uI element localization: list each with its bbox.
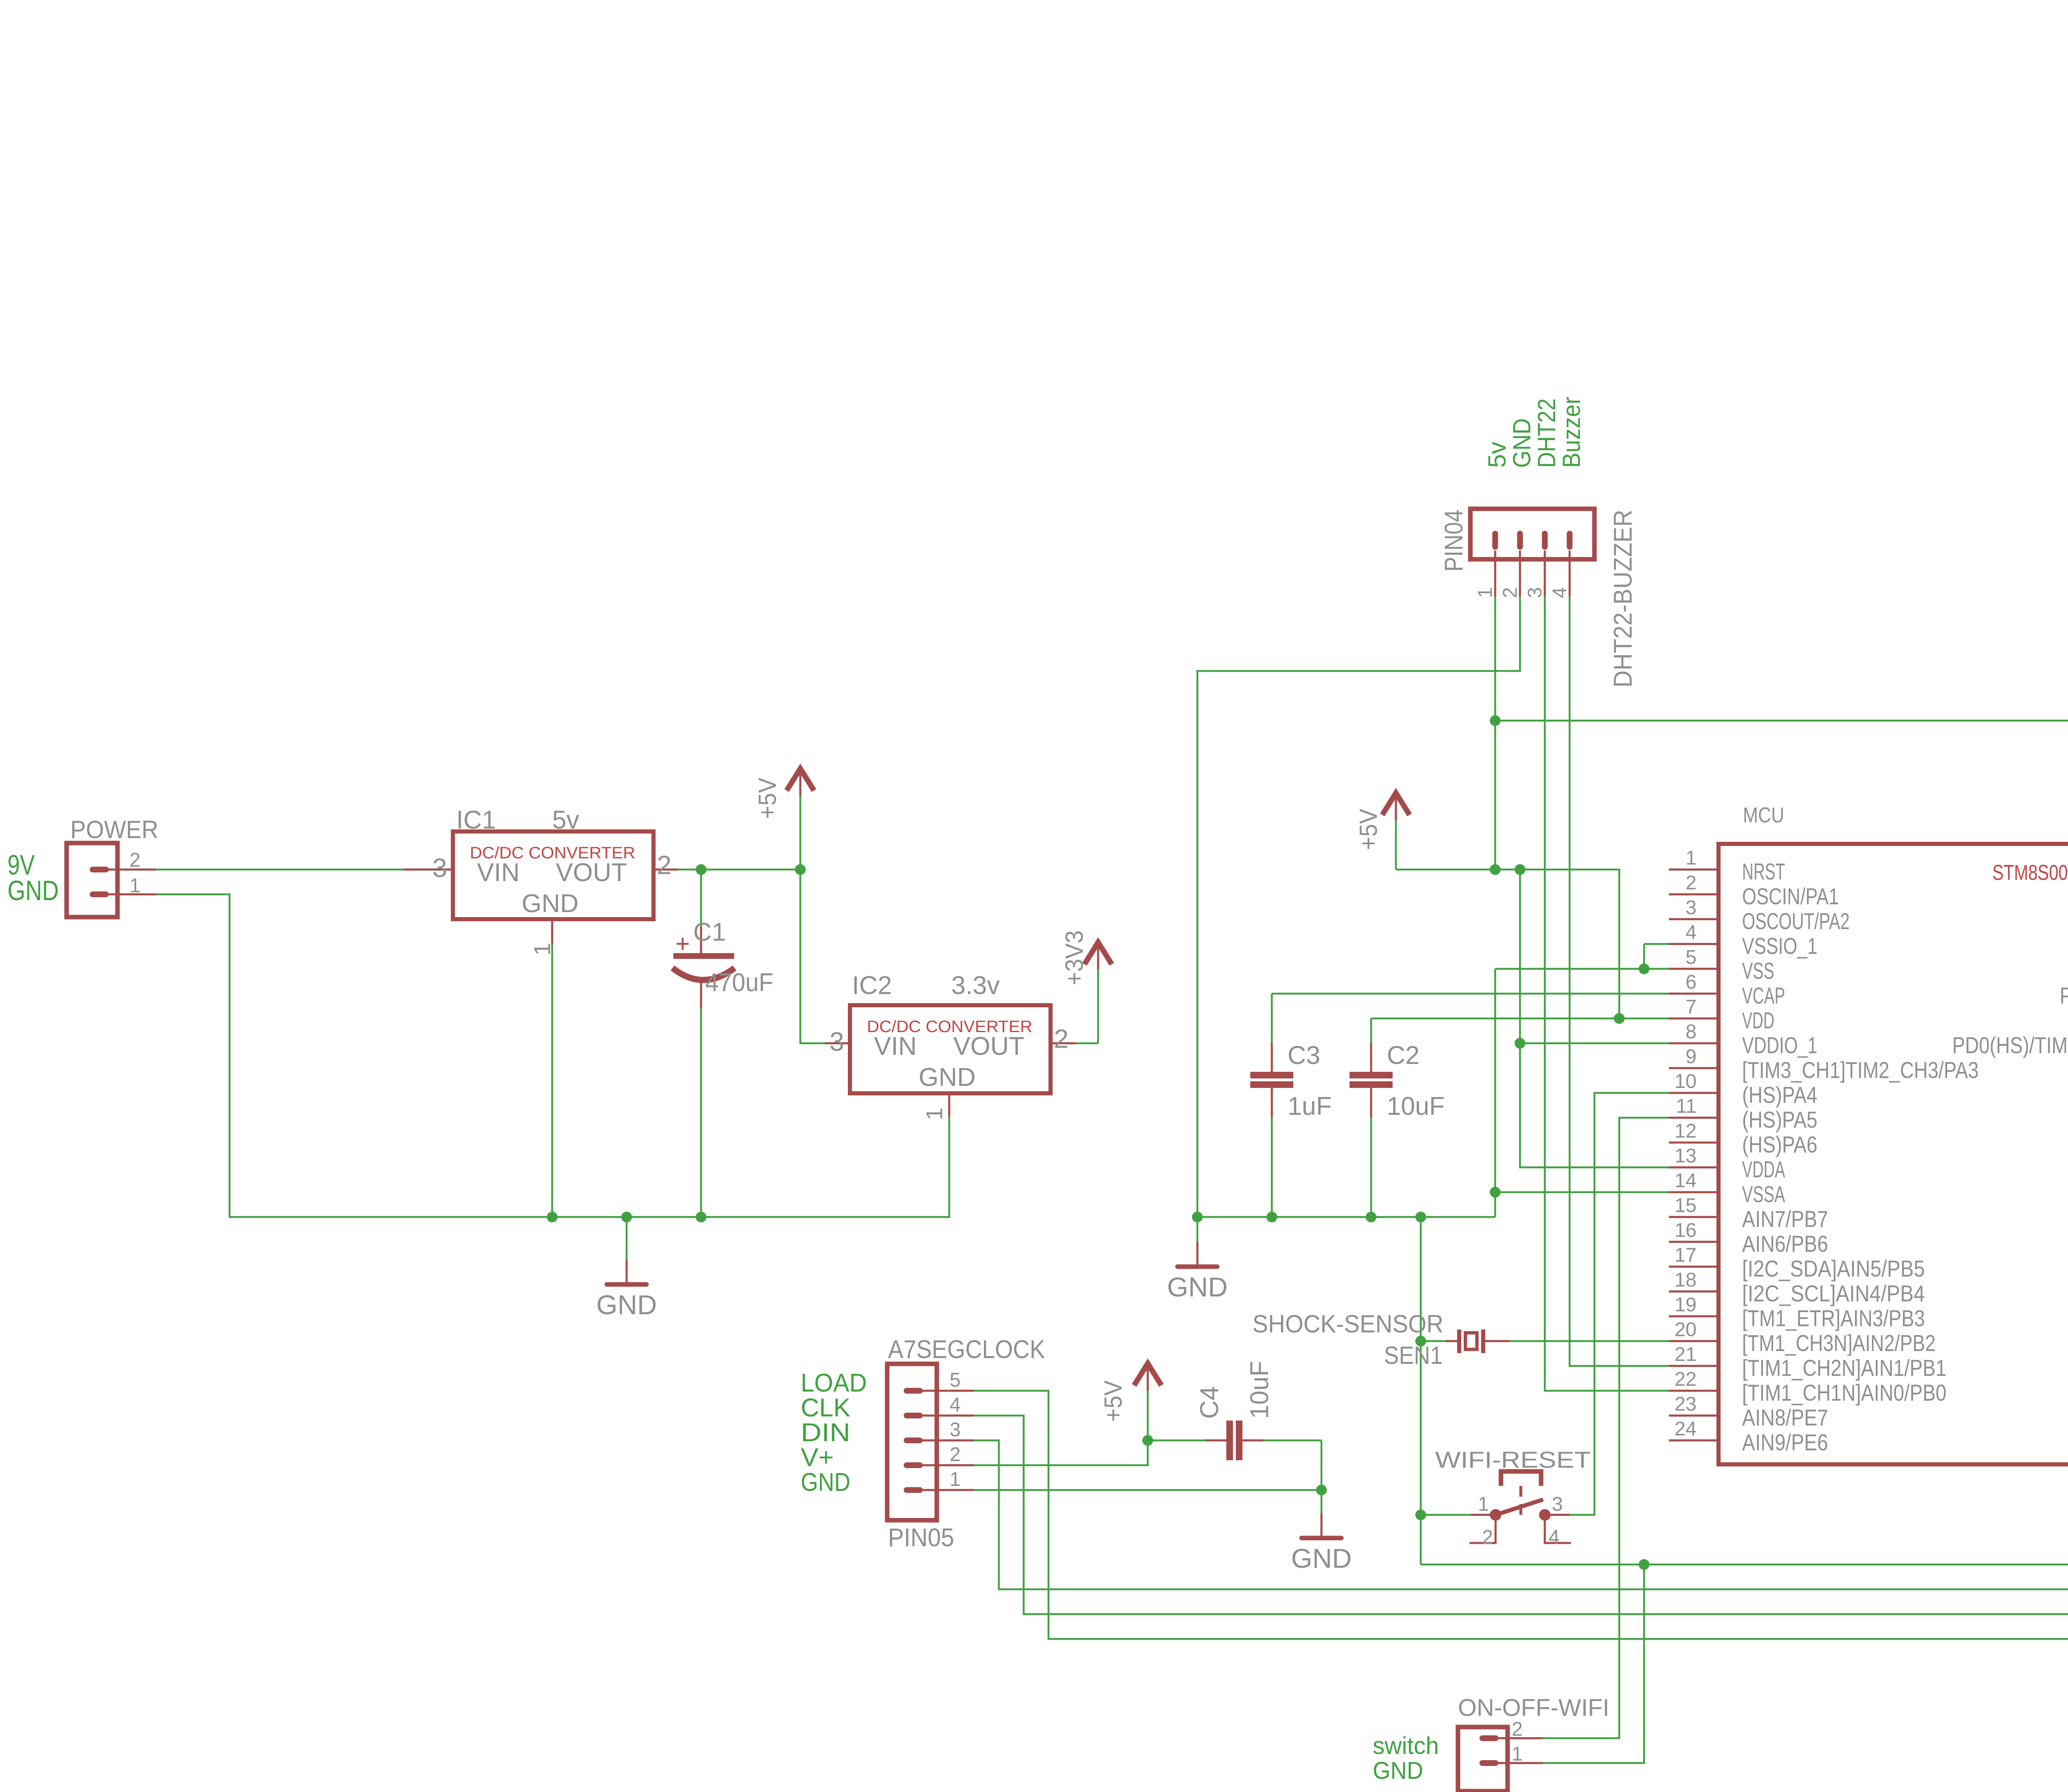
svg-text:1: 1 [1474, 587, 1496, 598]
junction IC1 GND / rail [547, 1212, 558, 1222]
pin 2 WIFI-RESET hook [1470, 1515, 1496, 1543]
svg-text:3: 3 [1685, 897, 1697, 919]
svg-text:4: 4 [1685, 922, 1697, 944]
wire PIN04 pin4 Buzzer to MCU pin21 [1570, 597, 1669, 1366]
junction rail / GND symbol [621, 1212, 632, 1222]
junction rail / SEN1 branch [1415, 1212, 1426, 1222]
wire VSS row [1495, 968, 1669, 970]
wire POWER pin1 to ground rail [156, 894, 949, 1217]
wire POWER pin2 to IC1 VIN [156, 869, 403, 871]
svg-text:[TIM1_CH1N]AIN0/PB0: [TIM1_CH1N]AIN0/PB0 [1742, 1380, 1946, 1406]
svg-text:GND: GND [596, 1289, 657, 1320]
wire MCU pin11 PA5 to ON-OFF-WIFI pin2 [1543, 1118, 1669, 1738]
junction C4/PIN05 GND [1316, 1485, 1327, 1495]
wire ON-OFF pin1 to GND line [1543, 1564, 1644, 1763]
svg-text:1: 1 [1685, 847, 1697, 869]
power +5V arrow (MCU rail) [1382, 793, 1410, 815]
svg-text:470uF: 470uF [705, 968, 773, 997]
ground symbol GND (left rail) [626, 1217, 628, 1260]
svg-text:22: 22 [1675, 1368, 1697, 1390]
pin 4 PIN05 [922, 1415, 974, 1417]
pin 7 MCU VDD [1669, 1018, 1719, 1020]
pin 1 ON-OFF-WIFI [1498, 1762, 1543, 1764]
junction +5V / C4 [1142, 1435, 1153, 1446]
connector POWER [67, 843, 117, 917]
svg-text:VSSA: VSSA [1742, 1181, 1785, 1207]
svg-text:[I2C_SCL]AIN4/PB4: [I2C_SCL]AIN4/PB4 [1742, 1280, 1925, 1306]
pin 5 MCU VSS [1669, 968, 1719, 970]
svg-text:12: 12 [1675, 1120, 1697, 1142]
svg-text:PIN05: PIN05 [888, 1524, 954, 1552]
pin 15 MCU AIN7/PB7 [1669, 1216, 1719, 1218]
svg-text:13: 13 [1675, 1145, 1697, 1167]
svg-text:21: 21 [1675, 1344, 1697, 1366]
svg-text:14: 14 [1675, 1170, 1697, 1192]
IC MCU STM8S005C6 [1719, 844, 2068, 1464]
svg-text:2: 2 [1054, 1024, 1069, 1054]
junction VDDIO_1 branch [1515, 864, 1525, 875]
svg-text:IC2: IC2 [852, 971, 892, 1000]
svg-text:MCU: MCU [1743, 803, 1784, 827]
svg-text:STM8S005C6: STM8S005C6 [1992, 861, 2068, 885]
wire C4 right to GND [1321, 1440, 1323, 1490]
junction at MCU pin8 [1515, 1038, 1525, 1049]
svg-text:5v: 5v [1483, 442, 1511, 468]
svg-text:19: 19 [1675, 1294, 1697, 1316]
power +5V arrow (A7SEG) [1134, 1363, 1161, 1385]
wire +5V branch VDDIO_1/VDDA [1520, 870, 1669, 1167]
svg-text:+3V3: +3V3 [1060, 930, 1088, 985]
svg-text:[TM1_ETR]AIN3/PB3: [TM1_ETR]AIN3/PB3 [1742, 1305, 1925, 1331]
svg-text:3: 3 [829, 1027, 844, 1057]
svg-text:VDD: VDD [1742, 1007, 1774, 1033]
pin 3 IC1 VIN [403, 869, 453, 871]
svg-text:10uF: 10uF [1387, 1092, 1445, 1121]
svg-text:2: 2 [1685, 872, 1697, 894]
svg-text:2: 2 [1482, 1526, 1493, 1548]
svg-text:17: 17 [1675, 1244, 1697, 1266]
wire PIN05 pin5 LOAD to MCU pin45 [974, 944, 2068, 1639]
svg-text:VIN: VIN [874, 1032, 917, 1061]
pin 1 WIFI-RESET [1471, 1514, 1496, 1516]
connector PIN04 (DHT22-BUZZER) [1470, 509, 1594, 559]
svg-text:1: 1 [1512, 1743, 1523, 1765]
wire PIN05 pin4 CLK to MCU pin44 [974, 969, 2068, 1614]
svg-text:C2: C2 [1387, 1041, 1419, 1070]
svg-text:20: 20 [1675, 1319, 1697, 1341]
svg-text:PD0(HS)/TIM3_CH2[TIM1_BKIN][CL: PD0(HS)/TIM3_CH2[TIM1_BKIN][CLK_CCO] [1952, 1032, 2068, 1058]
pin 1 PIN04 [1494, 551, 1496, 597]
wire PIN04 pin2 GND to left [1197, 597, 1520, 1217]
svg-text:V+: V+ [801, 1443, 834, 1472]
wire PIN05 pin3 DIN to MCU pin43 [974, 994, 2068, 1589]
svg-text:4: 4 [950, 1394, 961, 1416]
pin 11 MCU (HS)PA5 [1669, 1117, 1719, 1119]
pin 21 MCU [TIM1_CH2N]AIN1/PB1 [1669, 1365, 1719, 1367]
svg-text:ON-OFF-WIFI: ON-OFF-WIFI [1458, 1694, 1609, 1721]
svg-text:GND: GND [801, 1468, 850, 1497]
svg-text:10uF: 10uF [1245, 1361, 1274, 1419]
svg-text:GND: GND [1373, 1757, 1423, 1784]
pin 14 MCU VSSA [1669, 1191, 1719, 1193]
svg-text:8: 8 [1685, 1021, 1697, 1043]
capacitor C1 470uF (polarized) [700, 870, 702, 927]
svg-text:GND: GND [1291, 1543, 1352, 1574]
pin 8 MCU VDDIO_1 [1669, 1042, 1719, 1045]
wire 5v to MCU VDDIO_2 [1495, 721, 2068, 1267]
power +5V arrow (IC1 output) [787, 769, 814, 791]
svg-text:2: 2 [657, 850, 672, 880]
junction rail / DHT GND down-wire [1192, 1212, 1203, 1222]
svg-text:Buzzer: Buzzer [1558, 397, 1585, 468]
svg-text:GND: GND [919, 1063, 976, 1092]
svg-text:7: 7 [1685, 996, 1697, 1018]
svg-text:3.3v: 3.3v [951, 971, 1000, 1000]
svg-text:SHOCK-SENSOR: SHOCK-SENSOR [1252, 1310, 1443, 1338]
capacitor C2 10uF [1370, 1018, 1372, 1042]
shock sensor SEN1 [1421, 1340, 1446, 1342]
regulator IC1 DC/DC CONVERTER 5v [453, 831, 653, 919]
pin 2 PIN05 [922, 1464, 974, 1466]
connector ON-OFF-WIFI [1458, 1727, 1508, 1791]
svg-text:3: 3 [432, 853, 447, 883]
svg-text:[I2C_SDA]AIN5/PB5: [I2C_SDA]AIN5/PB5 [1742, 1255, 1925, 1282]
pin 2 IC1 VOUT [653, 869, 678, 871]
svg-text:1: 1 [950, 1469, 961, 1490]
junction WIFI-RESET pin1 [1415, 1509, 1426, 1520]
pin 3 IC2 VIN [825, 1042, 850, 1045]
svg-text:+5V: +5V [1099, 1380, 1127, 1422]
wire PIN05 pin2 V+ to +5V [974, 1440, 1148, 1465]
svg-text:CLK: CLK [801, 1394, 850, 1422]
wire VDD row to C2 and pin7 [1371, 1018, 1669, 1020]
pin 2 PIN04 [1519, 551, 1521, 597]
svg-text:AIN6/PB6: AIN6/PB6 [1742, 1231, 1828, 1257]
svg-text:2: 2 [129, 849, 141, 871]
svg-text:DIN: DIN [801, 1418, 850, 1447]
svg-text:(HS)PA4: (HS)PA4 [1742, 1082, 1817, 1108]
svg-text:[TIM1_CH2N]AIN1/PB1: [TIM1_CH2N]AIN1/PB1 [1742, 1355, 1946, 1381]
svg-text:NRST: NRST [1742, 858, 1785, 884]
pin 12 MCU (HS)PA6 [1669, 1142, 1719, 1144]
svg-text:POWER: POWER [70, 816, 158, 843]
wire MCU pin4 VSSIO_1 [1644, 943, 1669, 945]
pin 4 WIFI-RESET hook [1545, 1515, 1571, 1543]
svg-text:VIN: VIN [477, 858, 519, 887]
svg-text:5: 5 [950, 1369, 961, 1391]
svg-text:[TM1_CH3N]AIN2/PB2: [TM1_CH3N]AIN2/PB2 [1742, 1330, 1936, 1356]
pin 1 MCU NRST [1669, 869, 1719, 871]
svg-text:GND: GND [522, 889, 579, 918]
wire PIN05 pin1 GND line [974, 1489, 1321, 1491]
wire MCU pin10 PA4 to WIFI-RESET pin3 [1570, 1093, 1669, 1515]
junction at MCU pin7 VDD [1614, 1013, 1625, 1024]
pin 19 MCU [TM1_ETR]AIN3/PB3 [1669, 1315, 1719, 1318]
svg-text:LOAD: LOAD [801, 1369, 867, 1397]
svg-text:PIN04: PIN04 [1440, 510, 1468, 572]
svg-text:3: 3 [1552, 1493, 1563, 1515]
svg-text:VOUT: VOUT [953, 1032, 1024, 1061]
svg-text:15: 15 [1675, 1195, 1697, 1217]
svg-text:VSS: VSS [1742, 958, 1774, 984]
svg-text:OSCIN/PA1: OSCIN/PA1 [1742, 883, 1839, 909]
svg-text:2: 2 [950, 1444, 961, 1466]
switch contact 3 [1539, 1509, 1551, 1521]
junction 5v at +5V rail [1490, 864, 1501, 875]
svg-text:C4: C4 [1195, 1386, 1224, 1419]
svg-text:AIN7/PB7: AIN7/PB7 [1742, 1206, 1828, 1232]
junction C2 / rail [1366, 1212, 1376, 1222]
pin 1 IC1 GND [551, 918, 553, 943]
pin 3 PIN04 [1544, 551, 1546, 597]
pin 2 MCU OSCIN/PA1 [1669, 894, 1719, 896]
pin 20 MCU [TM1_CH3N]AIN2/PB2 [1669, 1340, 1719, 1342]
power +3V3 arrow (IC2 output) [1084, 942, 1112, 964]
svg-text:VSSIO_1: VSSIO_1 [1742, 933, 1817, 959]
pin 1 IC2 GND [948, 1092, 950, 1117]
pin 13 MCU VDDA [1669, 1167, 1719, 1169]
wire SEN1 to MCU pin20 [1510, 1340, 1669, 1342]
pin 3 WIFI-RESET [1545, 1514, 1570, 1516]
svg-text:OSCOUT/PA2: OSCOUT/PA2 [1742, 908, 1850, 934]
pin 2 IC2 VOUT [1051, 1042, 1075, 1045]
svg-text:SEN1: SEN1 [1384, 1342, 1443, 1369]
svg-text:1: 1 [129, 875, 141, 897]
svg-text:switch: switch [1373, 1732, 1439, 1759]
svg-text:VDDIO_1: VDDIO_1 [1742, 1032, 1817, 1058]
wire +5V rail to VDD/VDDIO [1396, 870, 1619, 1018]
pin 4 PIN04 [1569, 551, 1571, 597]
junction +5V / IC2 VIN [795, 864, 806, 875]
pin 3 MCU OSCOUT/PA2 [1669, 918, 1719, 920]
svg-text:10: 10 [1675, 1071, 1697, 1092]
junction 5v line split [1490, 715, 1501, 726]
wire IC1 GND to ground rail [551, 943, 553, 1217]
svg-text:VDDA: VDDA [1742, 1156, 1785, 1182]
svg-text:(HS)PA6: (HS)PA6 [1742, 1131, 1817, 1157]
svg-text:+5V: +5V [754, 778, 781, 819]
junction VSSIO/VSS [1639, 963, 1649, 974]
junction C3 / rail [1266, 1212, 1277, 1222]
svg-text:C3: C3 [1288, 1041, 1320, 1070]
switch lever [1496, 1500, 1543, 1515]
svg-text:DHT22: DHT22 [1533, 398, 1561, 468]
switch contact 1 [1490, 1509, 1501, 1521]
svg-text:AIN8/PE7: AIN8/PE7 [1742, 1404, 1828, 1430]
svg-text:1: 1 [529, 943, 555, 956]
wire MCU pin6 VCAP to C3 [1272, 993, 1669, 995]
svg-text:C1: C1 [693, 918, 726, 946]
svg-text:1: 1 [1478, 1493, 1489, 1515]
svg-text:IC1: IC1 [456, 806, 496, 834]
svg-text:23: 23 [1675, 1393, 1697, 1415]
svg-text:3: 3 [1524, 587, 1546, 598]
pin 17 MCU [I2C_SDA]AIN5/PB5 [1669, 1266, 1719, 1268]
wire PIN04 pin1 (5v) down [1494, 597, 1496, 870]
wire PIN04 pin3 DHT22 to MCU pin22 [1545, 597, 1669, 1391]
svg-text:18: 18 [1675, 1269, 1697, 1291]
pin 10 MCU (HS)PA4 [1669, 1092, 1719, 1094]
junction C1 bottom / rail [696, 1212, 706, 1222]
pin 16 MCU AIN6/PB6 [1669, 1241, 1719, 1243]
capacitor C3 1uF [1271, 994, 1273, 1042]
pin 2 ON-OFF-WIFI [1498, 1737, 1543, 1739]
svg-text:16: 16 [1675, 1219, 1697, 1241]
svg-text:5v: 5v [552, 806, 579, 834]
svg-text:5: 5 [1685, 946, 1697, 968]
ground symbol GND (C3/C2 rail) [1197, 1217, 1199, 1242]
wire GND rail down to SEN1 and WIFI-RESET [1420, 1217, 1422, 1564]
svg-text:WIFI-RESET: WIFI-RESET [1435, 1447, 1591, 1473]
pin 3 PIN05 [922, 1440, 974, 1442]
pin 5 PIN05 [922, 1390, 974, 1392]
svg-text:2: 2 [1499, 587, 1521, 598]
pin 22 MCU [TIM1_CH1N]AIN0/PB0 [1669, 1390, 1719, 1392]
junction VSSA row [1490, 1187, 1501, 1198]
svg-text:24: 24 [1675, 1418, 1697, 1440]
svg-text:A7SEGCLOCK: A7SEGCLOCK [888, 1335, 1045, 1364]
capacitor C4 10uF [1148, 1440, 1206, 1442]
pin 4 MCU VSSIO_1 [1669, 943, 1719, 945]
wire to MCU pin8 VDDIO_1 [1520, 1042, 1669, 1045]
wire GND to WIFI-RESET pin1 [1421, 1514, 1471, 1516]
ground rail (C3/C2) [1197, 1216, 1495, 1218]
wire IC1 VOUT +5V rail [678, 869, 800, 871]
svg-text:+: + [675, 930, 690, 958]
regulator IC2 DC/DC CONVERTER 3.3v [850, 1005, 1051, 1093]
svg-text:4: 4 [1549, 1526, 1560, 1548]
ground symbol GND (C4) [1321, 1490, 1323, 1513]
svg-text:9: 9 [1685, 1046, 1697, 1068]
junction SEN1 left [1415, 1336, 1426, 1346]
svg-text:3: 3 [950, 1419, 961, 1441]
wire MCU pin14 VSSA [1495, 1191, 1669, 1193]
svg-text:GND: GND [1508, 418, 1536, 468]
pin 9 MCU [TIM3_CH1]TIM2_CH3/PA3 [1669, 1067, 1719, 1069]
pin 24 MCU AIN9/PE6 [1669, 1440, 1719, 1442]
pin 23 MCU AIN8/PE7 [1669, 1415, 1719, 1417]
pin 1 PIN05 [922, 1489, 974, 1491]
svg-text:[TIM3_CH1]TIM2_CH3/PA3: [TIM3_CH1]TIM2_CH3/PA3 [1742, 1057, 1979, 1083]
svg-text:GND: GND [1167, 1272, 1228, 1302]
svg-text:DHT22-BUZZER: DHT22-BUZZER [1609, 510, 1637, 688]
pin 18 MCU [I2C_SCL]AIN4/PB4 [1669, 1291, 1719, 1293]
svg-text:2: 2 [1512, 1718, 1523, 1740]
svg-text:+5V: +5V [1355, 809, 1382, 850]
wire IC2 VIN from +5V rail [800, 870, 825, 1043]
svg-text:AIN9/PE6: AIN9/PE6 [1742, 1429, 1828, 1455]
svg-text:PD2(HS)/TIM3_CH1[TIM2_CH3]: PD2(HS)/TIM3_CH1[TIM2_CH3] [2060, 982, 2068, 1009]
junction C1 top [696, 864, 706, 875]
svg-text:(HS)PA5: (HS)PA5 [1742, 1107, 1817, 1133]
svg-text:4: 4 [1549, 587, 1571, 598]
svg-text:6: 6 [1685, 971, 1697, 993]
pin 6 MCU VCAP [1669, 993, 1719, 995]
svg-text:11: 11 [1676, 1095, 1697, 1117]
svg-text:VCAP: VCAP [1742, 982, 1785, 1009]
svg-text:GND: GND [7, 875, 59, 906]
junction ON-OFF pin1 / GND line [1639, 1559, 1649, 1570]
wire IC2 VOUT to +3V3 [1075, 1042, 1098, 1045]
svg-text:1uF: 1uF [1288, 1092, 1332, 1121]
wire VSS down to rail [1494, 969, 1496, 1217]
svg-text:1: 1 [921, 1107, 947, 1120]
wire GND long line to MCU VSSIO_2 [1421, 1291, 2068, 1564]
svg-text:VOUT: VOUT [556, 858, 627, 887]
